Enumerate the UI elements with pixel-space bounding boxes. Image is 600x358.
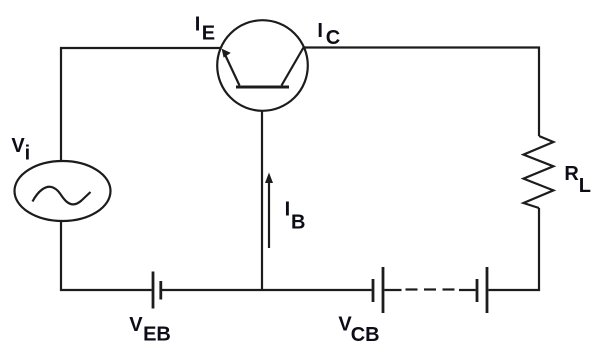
- svg-text:B: B: [291, 212, 305, 234]
- svg-text:E: E: [202, 23, 215, 45]
- emitter diagonal: [225, 54, 240, 86]
- svg-text:I: I: [195, 14, 201, 36]
- svg-text:V: V: [129, 314, 143, 336]
- label IB: [285, 199, 306, 234]
- label Vi: [11, 135, 30, 165]
- svg-text:i: i: [25, 143, 31, 165]
- label RL: [564, 163, 591, 197]
- dashed link: [384, 289, 401, 291]
- label IE: [195, 14, 215, 45]
- resistor RL: [524, 136, 554, 208]
- svg-text:I: I: [317, 20, 323, 42]
- svg-text:C: C: [326, 27, 340, 49]
- wire source bottom to bottom-left corner: [61, 221, 152, 290]
- wire bottom middle (VEB to VCB): [162, 289, 372, 291]
- label VEB: [129, 314, 171, 346]
- transistor Q1 (PNP, common base): [217, 20, 308, 111]
- collector diagonal: [282, 48, 304, 86]
- wire base (transistor base to bottom wire): [261, 110, 263, 291]
- svg-text:R: R: [564, 163, 579, 185]
- battery VCB (two cells with dashed middle): [373, 267, 487, 313]
- label IC: [317, 20, 340, 49]
- svg-text:V: V: [11, 135, 25, 157]
- svg-text:CB: CB: [351, 324, 380, 346]
- cell 2: [476, 279, 479, 302]
- battery VEB: [153, 272, 161, 309]
- node base-bottom junction: [261, 289, 263, 291]
- current arrow IB: [265, 173, 273, 249]
- svg-text:EB: EB: [143, 324, 171, 346]
- wire bottom-right (VCB to resistor bottom): [489, 208, 540, 290]
- emitter arrowhead: [222, 49, 231, 58]
- AC source V1 (signal source Vi): [15, 161, 111, 221]
- base bar: [236, 86, 289, 89]
- svg-text:L: L: [579, 175, 591, 197]
- wire top-left (emitter to source top): [61, 48, 221, 162]
- cell 1: [372, 279, 375, 302]
- svg-text:I: I: [285, 199, 291, 221]
- wire top-right (collector to resistor top): [304, 48, 539, 137]
- label VCB: [338, 314, 379, 347]
